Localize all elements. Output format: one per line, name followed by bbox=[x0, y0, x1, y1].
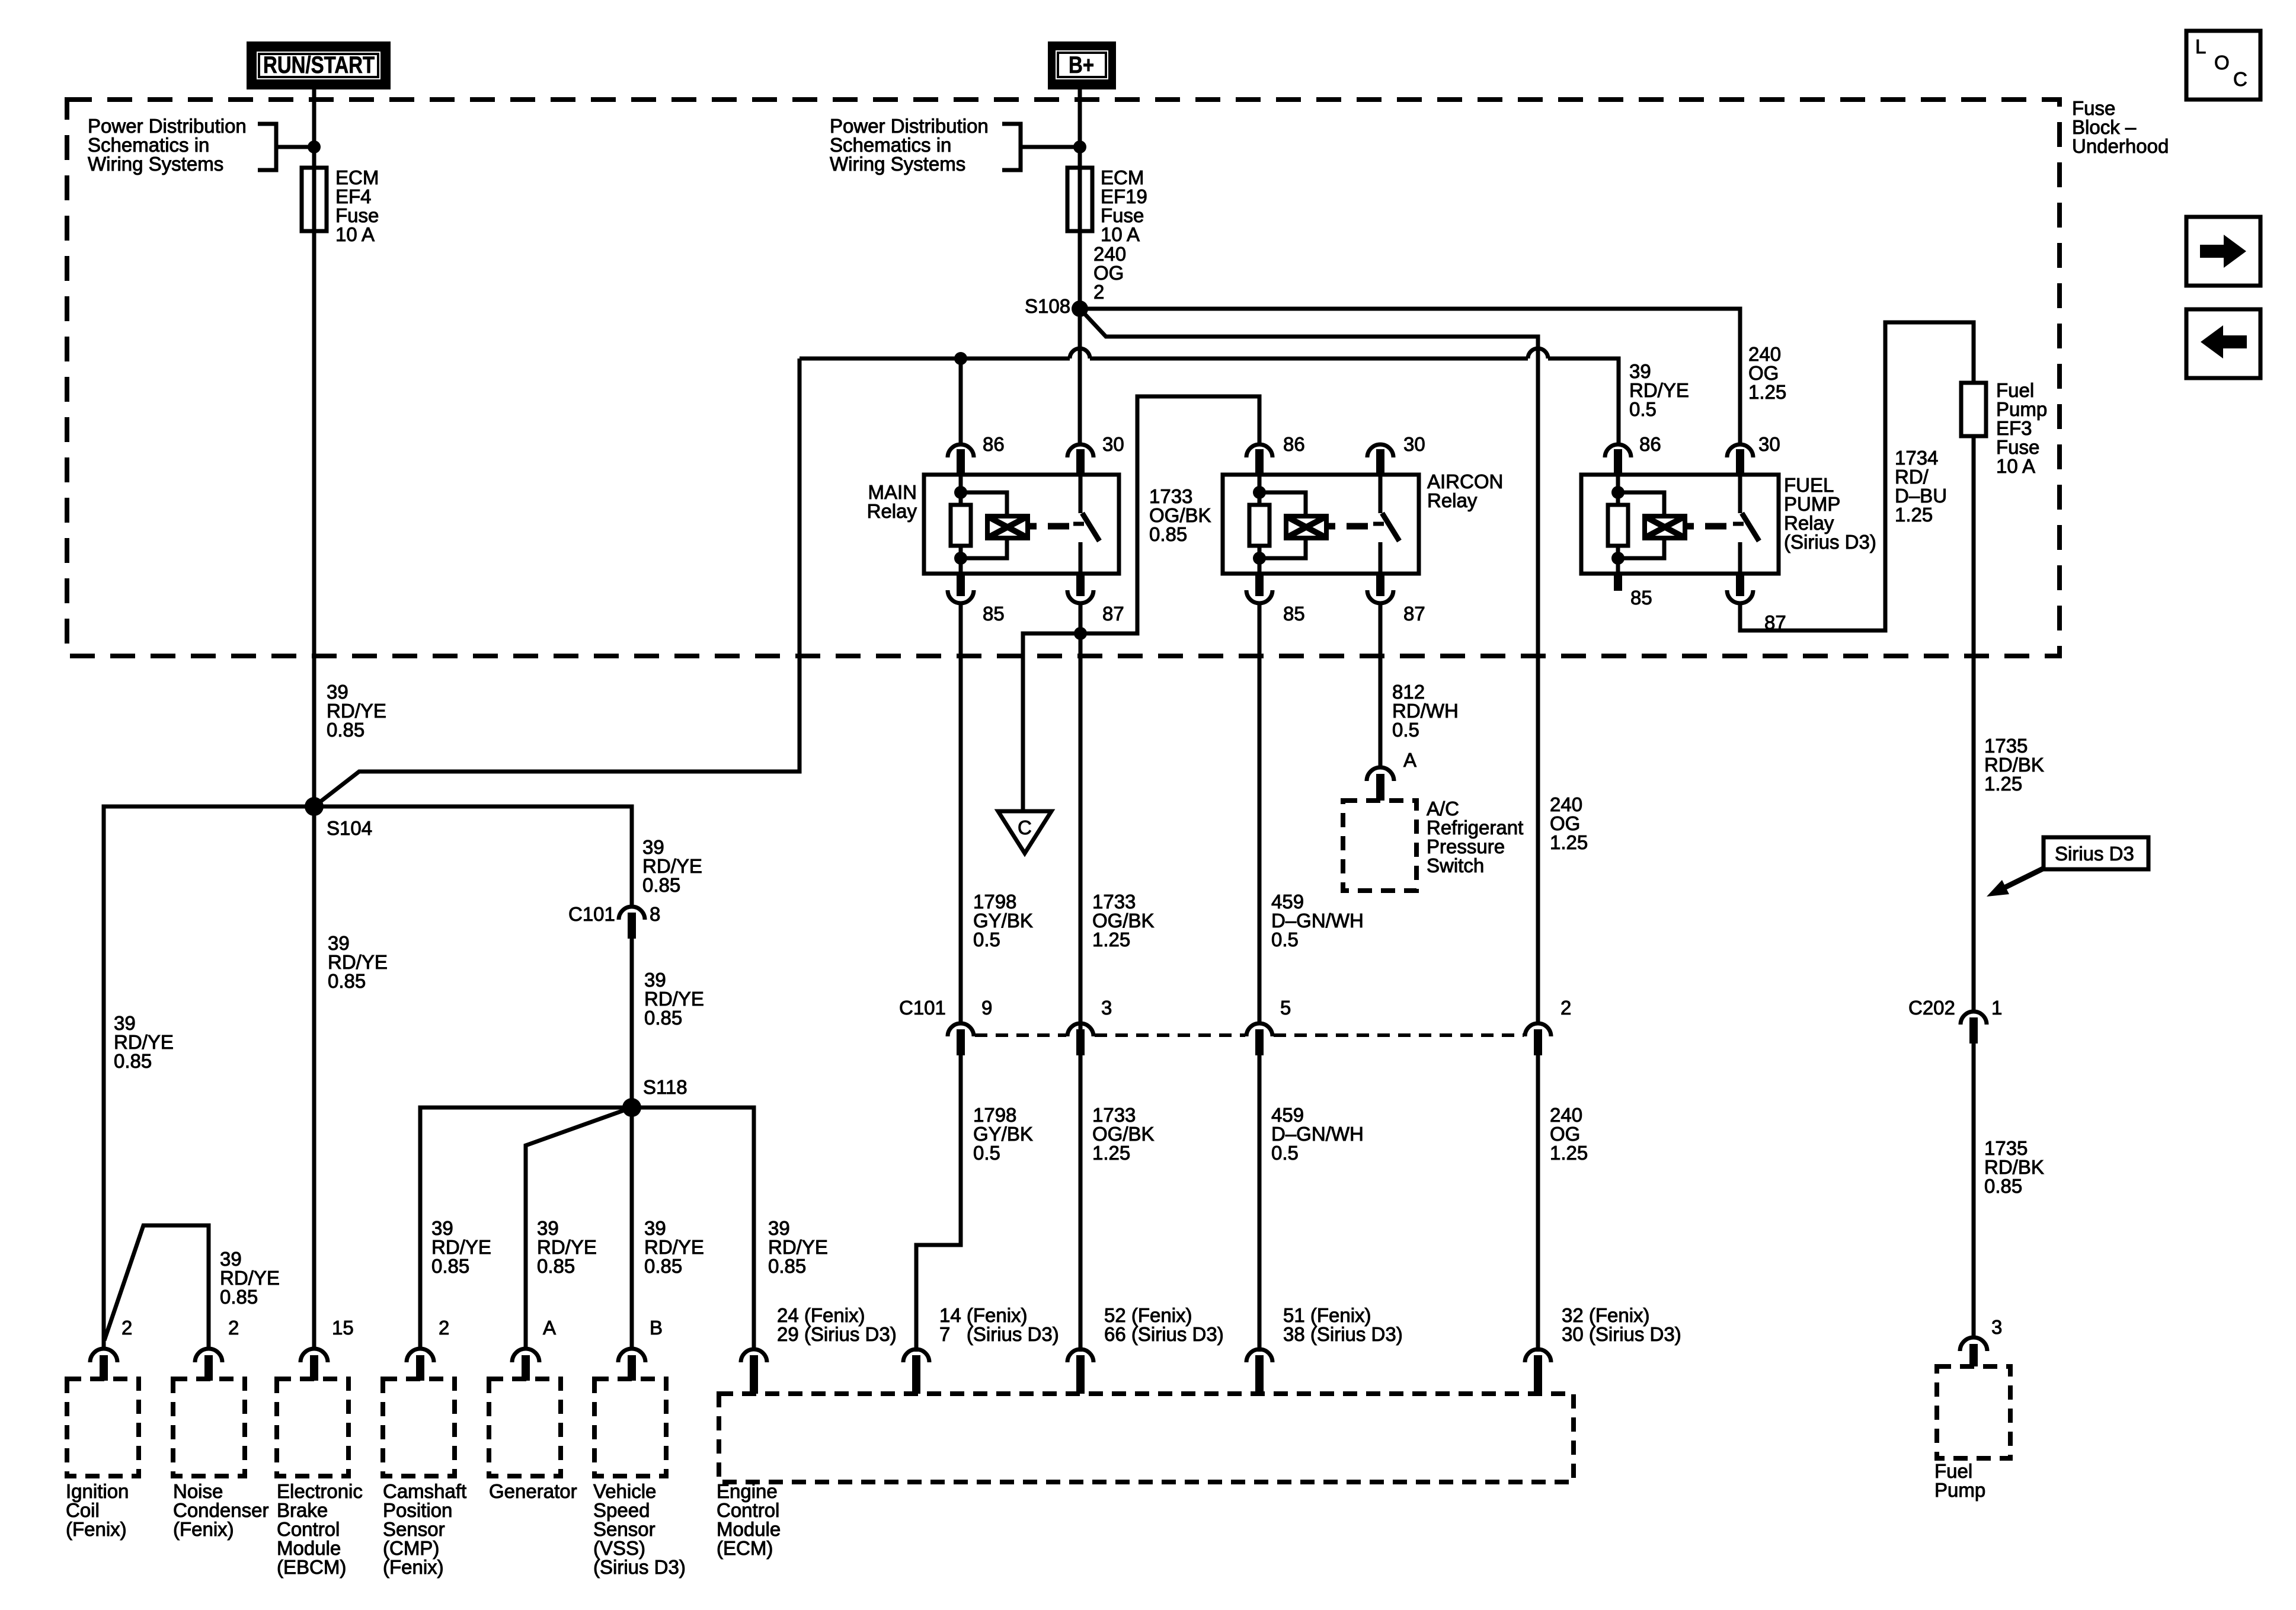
label: Ignition Coil (Fenix) bbox=[66, 1480, 129, 1540]
svg-text:A: A bbox=[543, 1317, 556, 1339]
junction dot on B+ wire bbox=[1073, 140, 1086, 153]
svg-text:0.85: 0.85 bbox=[431, 1255, 469, 1277]
svg-text:1.25: 1.25 bbox=[1895, 504, 1933, 526]
svg-text:Relay: Relay bbox=[867, 500, 917, 522]
svg-text:C101: C101 bbox=[899, 997, 946, 1019]
relay MAIN (K1) switch bbox=[1073, 475, 1099, 574]
svg-text:(Fenix): (Fenix) bbox=[383, 1556, 444, 1578]
wire: 86 bus down to MAIN relay pin 86 bbox=[959, 359, 963, 446]
svg-text:0.85: 0.85 bbox=[328, 970, 366, 992]
svg-text:1: 1 bbox=[1991, 997, 2002, 1019]
svg-text:(Sirius D3): (Sirius D3) bbox=[1784, 531, 1876, 553]
label: ECM pin 32 (Fenix) / 30 (Sirius D3) bbox=[1562, 1304, 1681, 1345]
Fuel Pump connector box bbox=[1937, 1366, 2010, 1458]
label: 459 D-GN/WH 0.5 (above C101) bbox=[1271, 891, 1364, 950]
svg-text:85: 85 bbox=[1283, 603, 1305, 625]
FUEL PUMP relay pin 85 stub (unconnected) bbox=[1614, 574, 1622, 591]
label: circuit 240 OG 2 bbox=[1093, 243, 1126, 303]
CMP sensor connector box bbox=[383, 1379, 455, 1476]
ECM pin 32/30 connector arc bbox=[1525, 1349, 1551, 1394]
wire: S118 right branch to ECM pin 24/29 bbox=[632, 1108, 754, 1349]
splice S104 dot bbox=[305, 797, 324, 816]
wire: S104 right branch to C101 pin 8 bbox=[314, 806, 632, 907]
reference bracket (right) bbox=[1002, 124, 1080, 170]
svg-text:0.5: 0.5 bbox=[973, 929, 1000, 950]
label: Engine Control Module (ECM) bbox=[717, 1480, 781, 1559]
wire: junction left to ground C triangle bbox=[1023, 633, 1080, 811]
svg-text:C: C bbox=[1018, 817, 1032, 838]
C101 pin 2 connector arc bbox=[1525, 1023, 1551, 1055]
svg-text:85: 85 bbox=[1630, 587, 1652, 609]
svg-text:0.85: 0.85 bbox=[220, 1286, 258, 1308]
AIRCON relay pin 87 connector arc bbox=[1367, 574, 1393, 603]
label: 1798 GY/BK 0.5 (above C101) bbox=[973, 891, 1033, 950]
svg-text:3: 3 bbox=[1991, 1316, 2002, 1338]
relay MAIN (K1) coil branch wire bbox=[959, 475, 963, 574]
label: 39 RD/YE 0.85 (VSS branch) bbox=[644, 1217, 704, 1277]
svg-text:10 A: 10 A bbox=[335, 223, 375, 245]
fuse ECM EF4 10A bbox=[302, 168, 327, 231]
wire: relay-86 bus (39 RD/YE) with hops over crossing wires bbox=[800, 359, 1619, 446]
Sirius D3 callout box bbox=[2044, 837, 2148, 869]
wire: B+ feed down through EF19 fuse, S108, to MAIN relay pin 30 bbox=[1078, 89, 1082, 446]
wire: AIRCON relay 87 down to A/C pressure switch pin A (812 RD/WH 0.5) bbox=[1379, 603, 1383, 769]
label: 39 RD/YE 0.85 (above S104) bbox=[327, 681, 386, 741]
relay FUEL PUMP (K3) coil symbol (box with X) bbox=[1645, 516, 1685, 538]
svg-text:0.85: 0.85 bbox=[1984, 1175, 2022, 1197]
label: FUEL PUMP Relay (Sirius D3) bbox=[1784, 474, 1876, 553]
wire: C202 to fuel pump pin 3 (1735 RD/BK 0.85) bbox=[1972, 1044, 1976, 1338]
relay FUEL PUMP (K3) coil branch wire bbox=[1616, 475, 1620, 574]
svg-text:30: 30 bbox=[1102, 433, 1124, 455]
fuse ECM EF19 10A bbox=[1067, 168, 1092, 231]
relay AIRCON (K2) internal junction dots bbox=[1253, 486, 1266, 499]
svg-text:8: 8 bbox=[650, 903, 660, 925]
svg-text:(Fenix): (Fenix) bbox=[66, 1518, 127, 1540]
relay MAIN (K1) actuating dashed link bbox=[1028, 523, 1069, 530]
label: 39 RD/YE 0.85 (C101-8 branch) bbox=[642, 836, 702, 896]
ECM pin 52/66 connector arc bbox=[1067, 1349, 1093, 1394]
MAIN relay pin 87 connector arc bbox=[1067, 574, 1093, 603]
svg-text:1.25: 1.25 bbox=[1748, 381, 1786, 403]
Fuse Block - Underhood dashed border bbox=[67, 100, 2060, 656]
label: 39 RD/YE 0.85 (ECM branch) bbox=[768, 1217, 828, 1277]
label: A/C Refrigerant Pressure Switch bbox=[1427, 798, 1523, 876]
svg-text:0.85: 0.85 bbox=[642, 874, 680, 896]
relay MAIN (K1) coil resistor bbox=[951, 505, 971, 546]
label: ECM pin 14 (Fenix) / 7 (Sirius D3) bbox=[939, 1304, 1059, 1345]
svg-text:1.25: 1.25 bbox=[1984, 773, 2022, 795]
hop arc over 240 OG wire bbox=[1528, 348, 1548, 359]
B+ power feed box bbox=[1048, 41, 1116, 89]
label: 1733 OG/BK 1.25 (below C101) bbox=[1092, 1104, 1155, 1164]
junction dot below MAIN relay 87 bbox=[1074, 627, 1087, 640]
svg-text:0.85: 0.85 bbox=[327, 719, 364, 741]
svg-text:Underhood: Underhood bbox=[2072, 135, 2169, 157]
svg-text:Relay: Relay bbox=[1427, 489, 1478, 511]
wire: S104 left branch to Ignition Coil pin 2 bbox=[104, 806, 314, 1349]
wire: FUEL PUMP relay 87 loop up to Fuel Pump EF3 fuse (1734 RD/D-BU 1.25) bbox=[1740, 322, 1974, 630]
relay MAIN (K1) coil symbol (box with X) bbox=[987, 516, 1028, 538]
label: Vehicle Speed Sensor (VSS) (Sirius D3) bbox=[593, 1480, 686, 1578]
svg-text:38 (Sirius D3): 38 (Sirius D3) bbox=[1283, 1323, 1403, 1345]
wire: AIRCON relay 85 down to C101 pin 5 bbox=[1258, 603, 1262, 1023]
connector C101 row dashed line bbox=[975, 1033, 1524, 1037]
C101 pin 3 connector arc bbox=[1067, 1023, 1093, 1055]
wire: S108 via jog down to C101 pin 2 (240 OG 1.25) bbox=[1080, 309, 1538, 1023]
wire: EF3 fuse down to C202 pin 1 (1735 RD/BK 1.25) bbox=[1972, 436, 1976, 1012]
svg-text:A: A bbox=[1403, 749, 1416, 771]
svg-text:3: 3 bbox=[1101, 997, 1112, 1019]
label: 240 OG 1.25 (above C101) bbox=[1550, 793, 1588, 853]
splice S108 dot bbox=[1072, 300, 1088, 317]
label: ECM pin 51 (Fenix) / 38 (Sirius D3) bbox=[1283, 1304, 1403, 1345]
relay AIRCON (K2) coil parallel loop wire bbox=[1259, 492, 1306, 558]
page-forward arrow box bbox=[2186, 217, 2260, 286]
label: 39 RD/YE 0.85 (generator branch) bbox=[537, 1217, 597, 1277]
svg-text:86: 86 bbox=[983, 433, 1005, 455]
svg-text:0.5: 0.5 bbox=[1392, 719, 1419, 741]
wire: S118 left branch to CMP sensor pin 2 bbox=[420, 1108, 632, 1349]
svg-text:S118: S118 bbox=[643, 1076, 687, 1098]
wire: C101 pin 5 to ECM pin 51/38 (459 D-GN/WH 0.5) bbox=[1258, 1055, 1262, 1352]
label: 39 RD/YE 0.5 (fuel pump relay 86 feed) bbox=[1629, 360, 1689, 420]
Ignition Coil pin 2 connector arc bbox=[90, 1349, 117, 1381]
svg-text:(EBCM): (EBCM) bbox=[277, 1556, 346, 1578]
note: Power Distribution Schematics in Wiring Systems (left) bbox=[88, 115, 247, 175]
label: 1734 RD/D-BU 1.25 bbox=[1895, 447, 1947, 526]
svg-text:30: 30 bbox=[1403, 433, 1425, 455]
relay AIRCON (K2) coil branch wire bbox=[1258, 475, 1262, 574]
relay MAIN (K1) pin 86 stub bbox=[957, 449, 965, 475]
wire: S118 diagonal branch to Generator pin A bbox=[526, 1108, 632, 1349]
label: 39 RD/YE 0.85 (EBCM branch) bbox=[328, 932, 388, 992]
wire: C101 pin 3 to ECM pin 52/66 (1733 OG/BK 1.25) bbox=[1079, 1055, 1083, 1352]
svg-text:0.85: 0.85 bbox=[768, 1255, 806, 1277]
svg-text:O: O bbox=[2214, 52, 2230, 73]
MAIN relay pin 85 connector arc bbox=[948, 574, 974, 603]
C101 pin 8 connector arc bbox=[619, 907, 645, 939]
svg-text:0.85: 0.85 bbox=[114, 1050, 152, 1072]
svg-text:L: L bbox=[2195, 36, 2206, 57]
label: ECM EF19 Fuse 10 A bbox=[1101, 167, 1147, 245]
wire: C101 pin 8 down to S118 bbox=[630, 939, 634, 1108]
relay AIRCON (K2) box bbox=[1223, 475, 1419, 574]
relay MAIN (K1) pin 30 connector arc bbox=[1067, 444, 1093, 457]
label: 1733 OG/BK 0.85 bbox=[1149, 485, 1211, 545]
CMP sensor pin 2 connector arc bbox=[407, 1349, 434, 1381]
relay MAIN (K1) pin 86 connector arc bbox=[948, 444, 974, 457]
svg-text:0.5: 0.5 bbox=[973, 1142, 1000, 1164]
svg-text:C202: C202 bbox=[1908, 997, 1955, 1019]
wire: 86 bus left leg down to S104 level bbox=[314, 359, 800, 806]
label: ECM EF4 Fuse 10 A bbox=[335, 167, 379, 245]
svg-text:7 (Sirius D3): 7 (Sirius D3) bbox=[939, 1323, 1059, 1345]
label: Fuel Pump EF3 Fuse 10 A bbox=[1996, 379, 2047, 477]
wire: MAIN relay 87 down to junction bbox=[1079, 603, 1083, 1352]
svg-text:S104: S104 bbox=[327, 817, 372, 839]
svg-text:C: C bbox=[2233, 68, 2247, 90]
svg-text:2: 2 bbox=[1093, 281, 1104, 303]
label: 812 RD/WH 0.5 bbox=[1392, 681, 1459, 741]
svg-text:29 (Sirius D3): 29 (Sirius D3) bbox=[777, 1323, 897, 1345]
svg-text:B: B bbox=[650, 1317, 663, 1339]
svg-text:0.85: 0.85 bbox=[644, 1007, 682, 1029]
label: 39 RD/YE 0.85 (ignition coil branch) bbox=[114, 1012, 174, 1072]
label: 1735 RD/BK 0.85 bbox=[1984, 1137, 2044, 1197]
relay MAIN (K1) box bbox=[924, 475, 1119, 574]
relay AIRCON (K2) pin 86 connector arc bbox=[1246, 444, 1272, 457]
relay FUEL PUMP (K3) actuating dashed link bbox=[1685, 523, 1726, 530]
VSS pin B connector arc bbox=[618, 1349, 645, 1381]
svg-text:30: 30 bbox=[1758, 433, 1780, 455]
svg-text:9: 9 bbox=[981, 997, 992, 1019]
relay AIRCON (K2) switch bbox=[1373, 475, 1399, 574]
page-back arrow box bbox=[2186, 309, 2260, 378]
label: 240 OG 1.25 (fuel pump relay 30 feed) bbox=[1748, 343, 1786, 403]
label: 39 RD/YE 0.85 (below C101-8) bbox=[644, 969, 704, 1029]
label: 1733 OG/BK 1.25 (above C101) bbox=[1092, 891, 1155, 950]
label: ECM pin 24 (Fenix) / 29 (Sirius D3) bbox=[777, 1304, 897, 1345]
wire: S108 to FUEL PUMP relay pin 30 (240 OG 1.25) bbox=[1080, 309, 1740, 446]
label: Noise Condenser (Fenix) bbox=[173, 1480, 268, 1540]
svg-text:86: 86 bbox=[1639, 433, 1661, 455]
junction dot on RUN/START wire bbox=[308, 140, 321, 153]
label: Generator bbox=[489, 1480, 577, 1502]
label: 39 RD/YE 0.85 (noise condenser branch) bbox=[220, 1248, 280, 1308]
svg-text:(ECM): (ECM) bbox=[717, 1537, 773, 1559]
svg-text:15: 15 bbox=[332, 1317, 354, 1339]
Generator pin A connector arc bbox=[512, 1349, 539, 1381]
svg-text:1.25: 1.25 bbox=[1550, 831, 1588, 853]
relay FUEL PUMP (K3) switch bbox=[1733, 475, 1759, 574]
ECM pin 51/38 connector arc bbox=[1246, 1349, 1272, 1394]
svg-text:1.25: 1.25 bbox=[1092, 1142, 1130, 1164]
svg-text:2: 2 bbox=[1560, 997, 1571, 1019]
Fuel Pump pin 3 connector arc bbox=[1960, 1337, 1987, 1366]
svg-text:5: 5 bbox=[1280, 997, 1291, 1019]
label: 1798 GY/BK 0.5 (below C101) bbox=[973, 1104, 1033, 1164]
RUN/START power feed box bbox=[247, 41, 391, 89]
svg-text:10 A: 10 A bbox=[1101, 223, 1140, 245]
label: MAIN Relay bbox=[867, 481, 917, 522]
svg-text:Switch: Switch bbox=[1427, 854, 1484, 876]
relay FUEL PUMP (K3) internal junction dots bbox=[1611, 486, 1625, 499]
relay AIRCON (K2) pin 30 stub bbox=[1376, 449, 1384, 475]
wire: branch to Noise Condenser pin 2 bbox=[104, 1225, 209, 1349]
ECM pin 14/7 connector arc bbox=[903, 1349, 929, 1394]
svg-text:2: 2 bbox=[439, 1317, 449, 1339]
svg-text:0.85: 0.85 bbox=[644, 1255, 682, 1277]
label: AIRCON Relay bbox=[1427, 470, 1503, 511]
ground reference triangle C bbox=[998, 811, 1051, 853]
relay AIRCON (K2) coil resistor bbox=[1249, 505, 1269, 546]
svg-text:86: 86 bbox=[1283, 433, 1305, 455]
svg-text:Generator: Generator bbox=[489, 1480, 577, 1502]
ECM pin 24/29 connector arc bbox=[741, 1349, 767, 1394]
svg-text:0.85: 0.85 bbox=[537, 1255, 575, 1277]
wire: MAIN relay 85 down to C101 pin 9 bbox=[959, 603, 963, 1023]
svg-text:1.25: 1.25 bbox=[1092, 929, 1130, 950]
svg-text:10 A: 10 A bbox=[1996, 455, 2035, 477]
relay AIRCON (K2) pin 30 connector arc bbox=[1367, 444, 1393, 457]
svg-text:87: 87 bbox=[1403, 603, 1425, 625]
svg-text:0.5: 0.5 bbox=[1271, 1142, 1299, 1164]
svg-text:Wiring Systems: Wiring Systems bbox=[830, 153, 965, 175]
relay AIRCON (K2) pin 86 stub bbox=[1255, 449, 1264, 475]
label: Camshaft Position Sensor (CMP) (Fenix) bbox=[383, 1480, 466, 1578]
Noise Condenser pin 2 connector arc bbox=[195, 1349, 222, 1381]
relay FUEL PUMP (K3) coil parallel loop wire bbox=[1618, 492, 1664, 558]
svg-text:Sirius D3: Sirius D3 bbox=[2055, 843, 2134, 865]
relay FUEL PUMP (K3) pin 30 stub bbox=[1736, 449, 1744, 475]
wire: RUN/START feed down to S104 and EBCM pin 15 bbox=[312, 89, 316, 1349]
svg-text:S108: S108 bbox=[1025, 295, 1070, 317]
relay AIRCON (K2) actuating dashed link bbox=[1326, 523, 1368, 530]
LOC legend box bbox=[2186, 31, 2260, 100]
svg-text:Pump: Pump bbox=[1934, 1479, 1985, 1501]
svg-text:2: 2 bbox=[228, 1317, 239, 1339]
fuse Fuel Pump EF3 10A bbox=[1961, 383, 1986, 436]
Noise Condenser connector box bbox=[173, 1379, 245, 1476]
A/C Refrigerant Pressure Switch connector box bbox=[1343, 801, 1416, 891]
relay FUEL PUMP (K3) box bbox=[1581, 475, 1779, 574]
relay FUEL PUMP (K3) coil resistor bbox=[1608, 505, 1628, 546]
C101 pin 9 connector arc bbox=[948, 1023, 974, 1055]
svg-text:B+: B+ bbox=[1069, 52, 1094, 78]
hop arc over B+ wire bbox=[1070, 348, 1090, 359]
Ignition Coil connector box bbox=[67, 1379, 139, 1476]
svg-text:66 (Sirius D3): 66 (Sirius D3) bbox=[1104, 1323, 1224, 1345]
VSS connector box bbox=[594, 1379, 666, 1476]
Generator connector box bbox=[489, 1379, 561, 1476]
EBCM connector box bbox=[277, 1379, 348, 1476]
wire: C101 pin 9 to ECM pin 14/7 (1798 GY/BK 0.5) bbox=[916, 1055, 961, 1352]
relay AIRCON (K2) coil symbol (box with X) bbox=[1286, 516, 1326, 538]
relay FUEL PUMP (K3) pin 86 stub bbox=[1614, 449, 1622, 475]
splice S118 dot bbox=[622, 1098, 641, 1117]
label: ECM pin 52 (Fenix) / 66 (Sirius D3) bbox=[1104, 1304, 1224, 1345]
svg-text:C101: C101 bbox=[568, 903, 615, 925]
label: 1735 RD/BK 1.25 bbox=[1984, 735, 2044, 795]
label: Electronic Brake Control Module (EBCM) bbox=[277, 1480, 363, 1578]
Sirius D3 callout arrow bbox=[2002, 868, 2045, 889]
label: Fuse Block - Underhood bbox=[2072, 97, 2169, 157]
relay FUEL PUMP (K3) pin 30 connector arc bbox=[1727, 444, 1753, 457]
svg-text:Wiring Systems: Wiring Systems bbox=[88, 153, 223, 175]
wire: S118 down to VSS pin B bbox=[630, 1108, 634, 1349]
AIRCON relay pin 85 connector arc bbox=[1246, 574, 1272, 603]
relay FUEL PUMP (K3) pin 86 connector arc bbox=[1605, 444, 1631, 457]
note: Power Distribution Schematics in Wiring Systems (right) bbox=[830, 115, 989, 175]
FUEL PUMP relay pin 87 connector arc bbox=[1727, 574, 1753, 603]
svg-text:0.85: 0.85 bbox=[1149, 523, 1187, 545]
svg-text:2: 2 bbox=[121, 1317, 132, 1339]
EBCM pin 15 connector arc bbox=[300, 1349, 328, 1381]
svg-text:RUN/START: RUN/START bbox=[263, 52, 375, 78]
svg-text:0.5: 0.5 bbox=[1629, 398, 1657, 420]
svg-text:(Sirius D3): (Sirius D3) bbox=[593, 1556, 686, 1578]
relay MAIN (K1) coil parallel loop wire bbox=[961, 492, 1007, 558]
label: 240 OG 1.25 (below C101) bbox=[1550, 1104, 1588, 1164]
svg-text:30 (Sirius D3): 30 (Sirius D3) bbox=[1562, 1323, 1681, 1345]
relay MAIN (K1) internal junction dots bbox=[954, 486, 967, 499]
relay MAIN (K1) pin 30 stub bbox=[1076, 449, 1085, 475]
junction dot: 86 bus to MAIN relay 86 bbox=[954, 352, 967, 365]
label: 39 RD/YE 0.85 (CMP branch) bbox=[431, 1217, 491, 1277]
reference bracket (left) bbox=[258, 124, 314, 170]
label: Fuel Pump bbox=[1934, 1460, 1985, 1501]
svg-text:(Fenix): (Fenix) bbox=[173, 1518, 234, 1540]
wire: junction right and up over to AIRCON relay pin 86 (1733 OG/BK 0.85) bbox=[1080, 396, 1259, 633]
svg-text:85: 85 bbox=[983, 603, 1005, 625]
svg-text:1.25: 1.25 bbox=[1550, 1142, 1588, 1164]
svg-text:0.5: 0.5 bbox=[1271, 929, 1299, 950]
label: 459 D-GN/WH 0.5 (below C101) bbox=[1271, 1104, 1364, 1164]
C101 pin 5 connector arc bbox=[1246, 1023, 1272, 1055]
svg-text:87: 87 bbox=[1102, 603, 1124, 625]
C202 pin 1 connector arc bbox=[1961, 1012, 1987, 1044]
Engine Control Module (ECM) connector box bbox=[719, 1394, 1574, 1482]
A/C pressure switch pin A connector arc bbox=[1367, 767, 1394, 801]
wire: C101 pin 2 to ECM pin 32/30 (240 OG 1.25) bbox=[1536, 1055, 1540, 1352]
